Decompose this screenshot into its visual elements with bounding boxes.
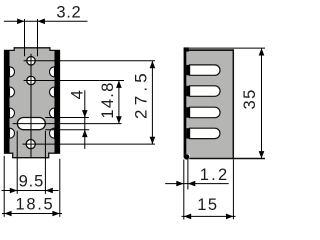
3.2 dim line [4,20,88,22]
27.5 dim line [151,61,153,144]
18.5 dim line [2,213,62,215]
fins slots [190,65,220,139]
slot caps [186,65,190,139]
9.5 arrows [10,188,17,194]
slot oval [17,118,45,130]
bottom edge [189,158,265,160]
15 arrows [184,214,191,220]
svg-text:9.5: 9.5 [19,173,45,191]
3.2 ext lines [24,19,26,56]
35 dim line [261,48,263,158]
side body [184,50,233,158]
svg-text:1.2: 1.2 [200,166,230,184]
svg-text:15: 15 [197,196,218,214]
oval top line [45,117,89,119]
18.5 ext lines [3,156,5,217]
heatsink dimension drawing [0,0,265,223]
C2 leader [24,80,124,82]
3.2 arrows [17,19,24,25]
centerline [30,54,32,158]
1.2 dim line [165,183,229,185]
hole C3 [26,140,35,149]
left side bar [5,50,10,152]
35 arrows [259,48,265,55]
arrows [4,19,264,220]
1.2 ext line [187,158,189,189]
thin lines [2,19,156,217]
svg-text:3.2: 3.2 [56,4,81,22]
15 dim line [182,215,236,217]
bottom pocket [186,155,189,158]
oval mid leader [13,123,122,125]
C1 leader [24,60,155,62]
18.5 arrows [4,211,11,217]
wall top cap [186,47,189,51]
right notches [50,67,55,138]
front view body [5,48,60,158]
side dims thin lines [165,48,265,219]
svg-text:27.5: 27.5 [131,69,150,119]
top edge [184,49,234,51]
side outline [184,49,265,159]
9.5 dim line [2,190,59,192]
4 dim line [84,90,86,149]
right side bar [55,50,60,152]
C3 leader [23,143,156,145]
15 ext lines [183,160,185,220]
hole C2 [27,76,36,85]
oval bottom line [45,129,89,131]
base wall [184,47,187,157]
9.5 ext lines [16,131,18,194]
14.8 dim line [118,81,120,124]
1.2 arrows [176,181,183,187]
svg-text:18.5: 18.5 [16,196,55,214]
right edge [232,49,234,159]
left notches [10,67,15,138]
corner dot [184,154,189,159]
14.8 arrows [116,81,122,88]
27.5 arrows [150,61,156,68]
svg-text:35: 35 [241,88,259,109]
4 arrows [82,110,88,117]
35 top ext [189,47,265,49]
svg-text:14.8: 14.8 [99,81,117,118]
svg-text:4: 4 [68,90,86,99]
hole C1 [27,57,36,66]
